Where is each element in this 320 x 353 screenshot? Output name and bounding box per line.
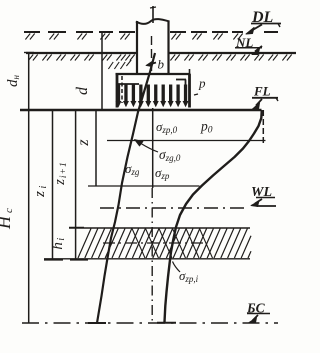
layer i top boundary (69, 227, 250, 229)
NL natural ground line (26, 52, 296, 54)
svg-text:FL: FL (253, 84, 271, 99)
svg-text:b: b (158, 57, 165, 72)
hatch ticks under NL line (28, 55, 291, 61)
BC lower boundary dash-dot line (22, 322, 278, 324)
label d (74, 86, 91, 95)
FL leader arrow (253, 99, 263, 109)
layer i middle dash-dot line (103, 242, 207, 244)
sigma_zp curve foot tick (157, 322, 176, 324)
footing right cup wall (176, 80, 186, 100)
hatch ticks under DL line (25, 34, 242, 40)
WL water level dash line (100, 207, 246, 209)
NL leader arrow (252, 46, 262, 55)
z dimension line (95, 110, 97, 186)
label d_n (5, 74, 21, 87)
z axis solid upper part (152, 108, 154, 188)
layer i hatching (78, 229, 251, 259)
BC level label (246, 301, 270, 316)
label sigma_zp0 (156, 119, 178, 135)
DL level label (251, 9, 281, 27)
sigma_zp stress curve (165, 110, 262, 322)
footing top line (116, 69, 191, 74)
WL leader arrow (251, 199, 276, 207)
footing left cup wall (118, 76, 139, 103)
sigma_zg line foot tick (88, 322, 106, 324)
FL level label (252, 84, 278, 102)
WL level label (251, 185, 275, 200)
label z (75, 139, 92, 147)
layer i cross hatching (132, 229, 213, 259)
p0 ordinate vertical line (262, 110, 264, 146)
zi+1 foot tick (70, 259, 88, 261)
BC leader arrow (249, 315, 258, 323)
footing left outer edge (116, 74, 119, 108)
extra hatch ticks left of column (108, 60, 131, 69)
sigma_zg0 leader arrow (135, 140, 159, 153)
z depth tick line (88, 185, 200, 187)
svg-text:p: p (198, 76, 206, 91)
DL ground surface dashed line (24, 31, 278, 33)
label sigma_zg (125, 161, 140, 177)
sigma_zg self-weight stress line (97, 53, 155, 323)
NL level label (235, 35, 262, 50)
svg-text:z: z (75, 139, 92, 147)
label p0 (200, 119, 213, 136)
label z_i+1 (52, 161, 69, 185)
label b with arrow (146, 57, 165, 72)
Hc / dn dimension line (24, 52, 34, 323)
column right edge (167, 21, 169, 75)
zi dimension line (52, 110, 54, 260)
layer i bottom boundary (44, 258, 250, 260)
label z_i (32, 183, 49, 198)
label sigma_zg0 (159, 147, 181, 163)
label sigma_zp_i (173, 262, 199, 284)
z axis dash-dot lower part (151, 188, 153, 322)
column left edge (136, 21, 138, 75)
footing right outer edge (188, 74, 191, 108)
contact pressure arrows p (116, 85, 189, 108)
column axis top tick (150, 6, 156, 23)
label H_c (0, 205, 15, 230)
column axis dashed centerline (151, 36, 153, 74)
zi foot tick (44, 259, 63, 261)
svg-text:d: d (74, 86, 91, 95)
DL leader arrow (246, 25, 262, 35)
label sigma_zp (155, 165, 170, 181)
FL foundation level line (20, 109, 262, 111)
label p (194, 76, 206, 96)
column top break line (136, 19, 170, 24)
zi+1 dimension line (75, 110, 77, 260)
sigma_zp0 level line (107, 140, 266, 142)
label h_i (50, 236, 67, 249)
layer top tick (69, 227, 84, 229)
d dimension line (101, 32, 103, 110)
